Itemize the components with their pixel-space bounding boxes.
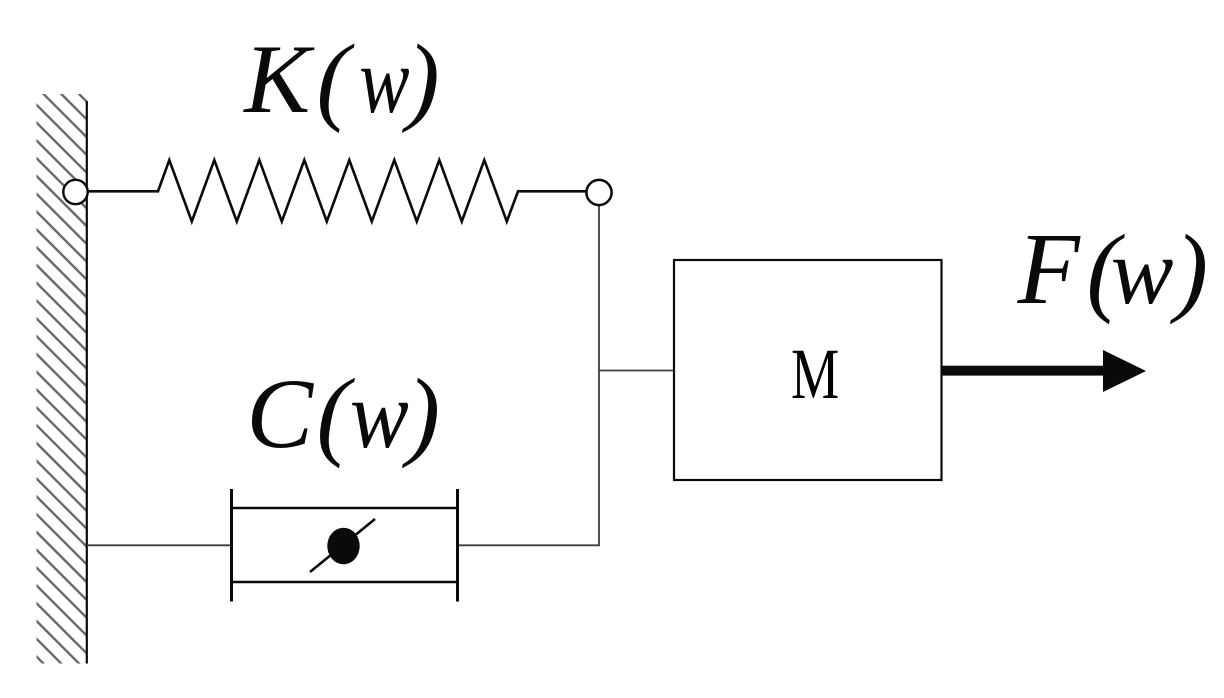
svg-text:K: K — [242, 25, 315, 134]
svg-text:F: F — [1017, 213, 1082, 326]
svg-text:): ) — [402, 358, 440, 469]
svg-text:): ) — [1170, 214, 1208, 325]
svg-text:M: M — [791, 334, 839, 414]
svg-text:w: w — [1111, 220, 1174, 324]
svg-text:C: C — [246, 358, 314, 469]
svg-text:w: w — [359, 29, 410, 133]
svg-text:): ) — [402, 25, 440, 134]
svg-text:w: w — [350, 361, 409, 468]
